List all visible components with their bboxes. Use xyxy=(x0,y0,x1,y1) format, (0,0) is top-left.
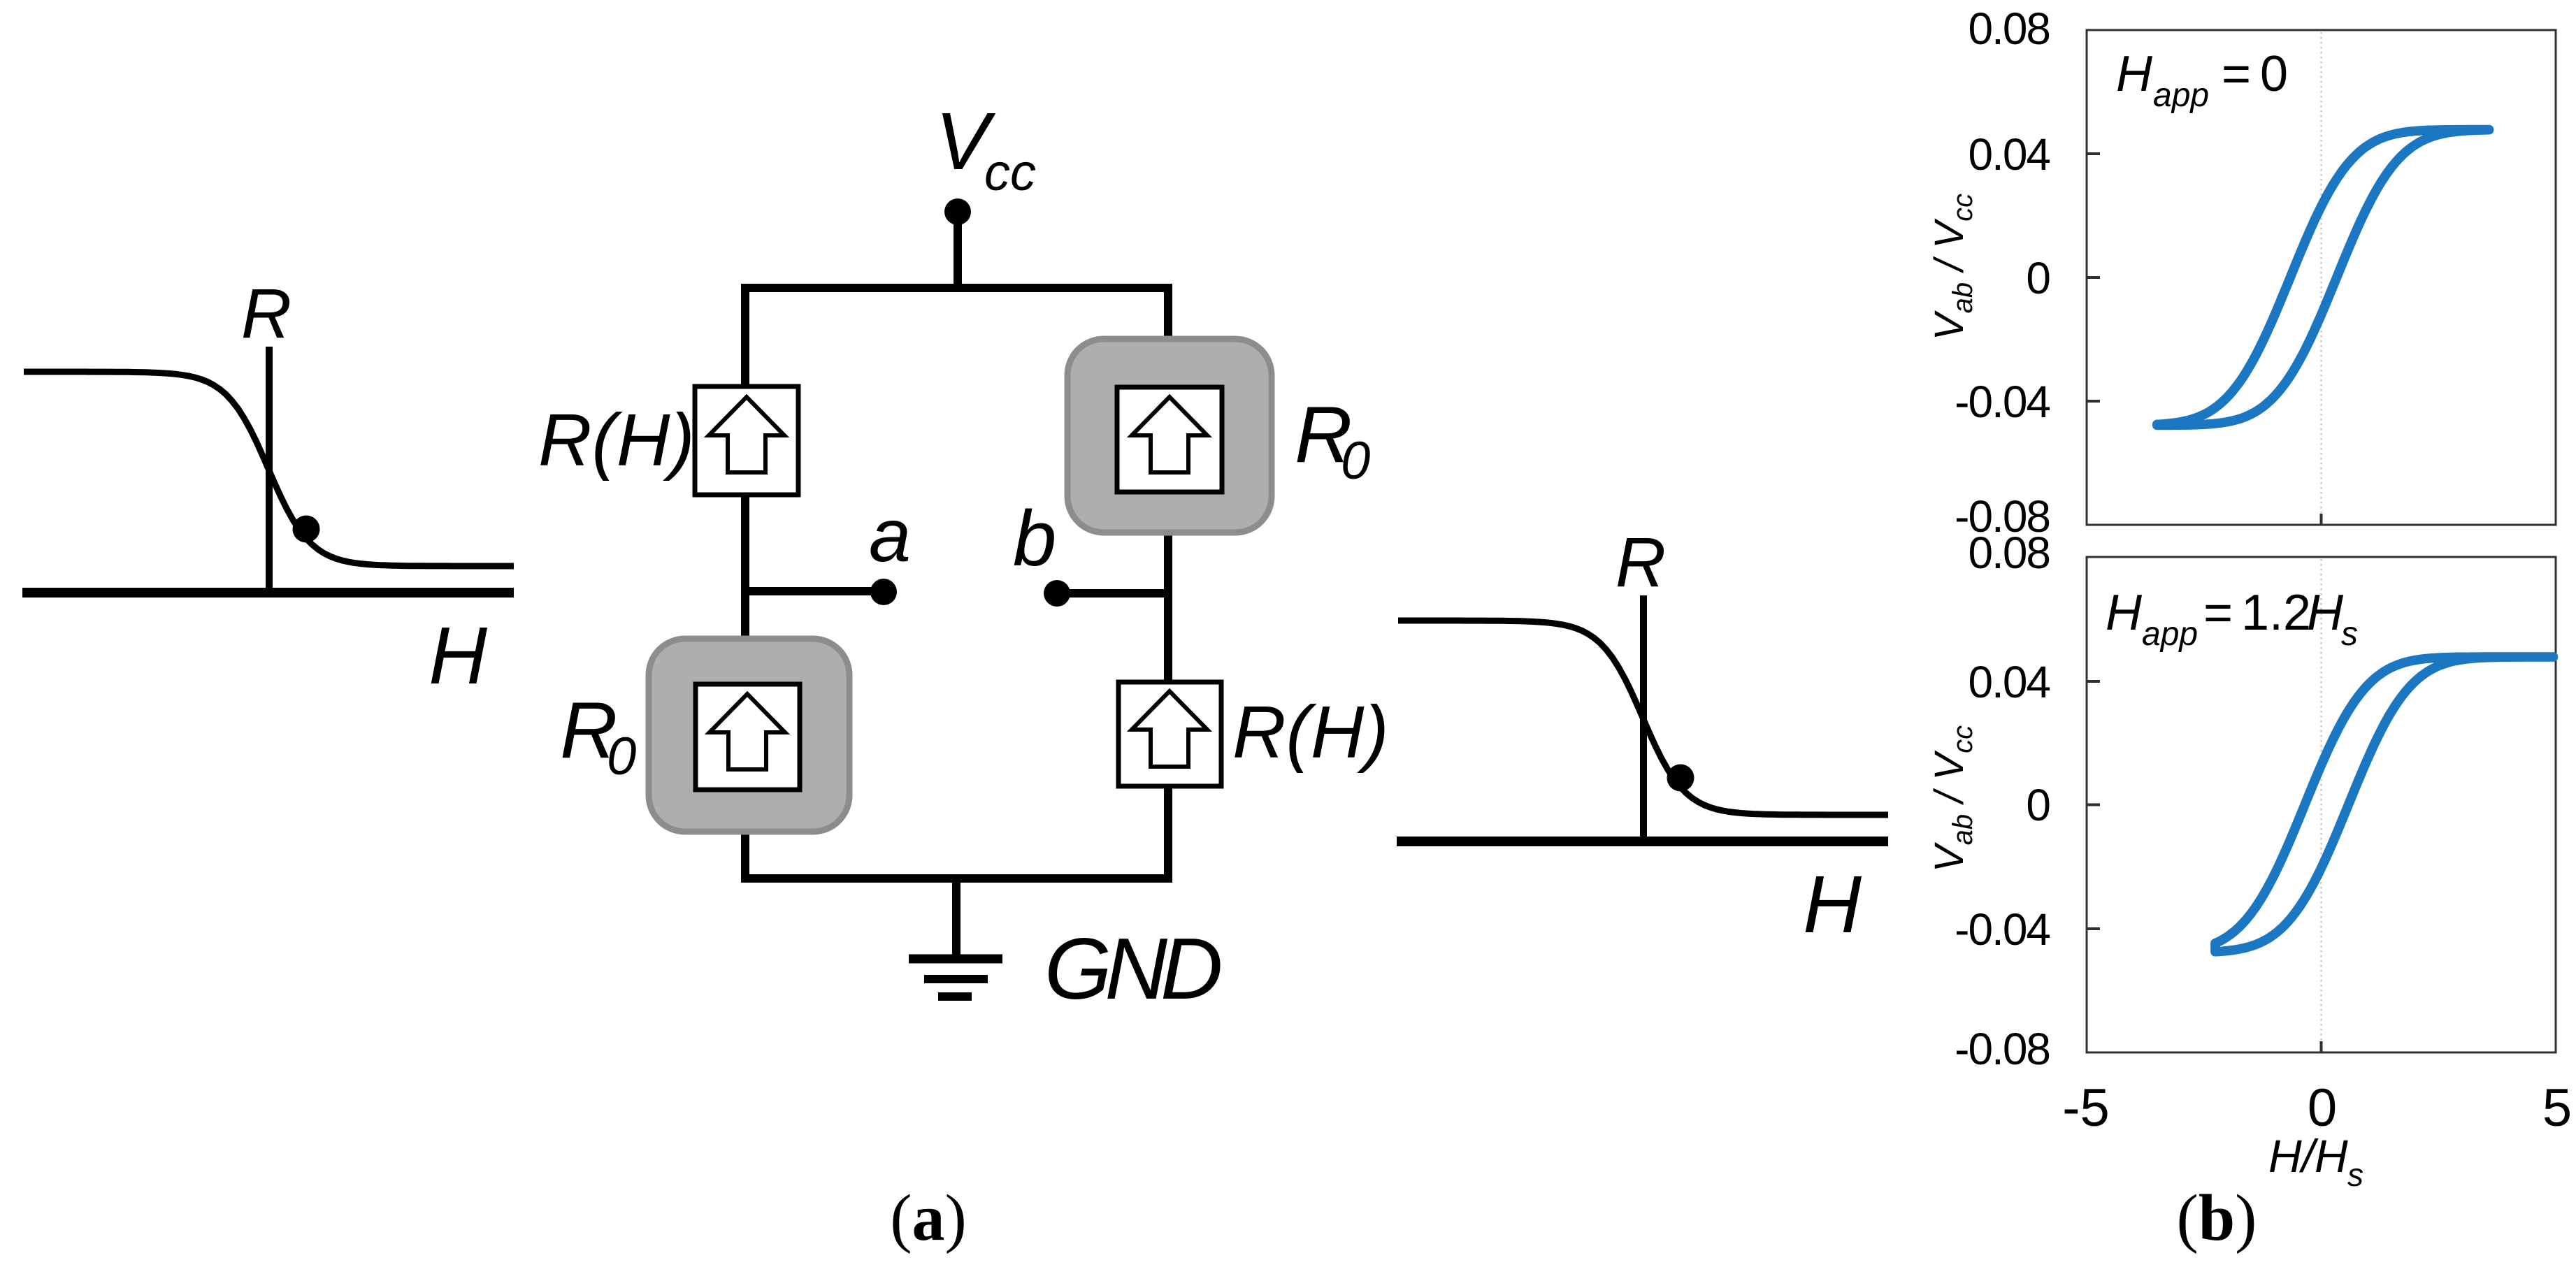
svg-text:0: 0 xyxy=(2308,1078,2337,1138)
svg-text:H/H: H/H xyxy=(2268,1130,2348,1182)
svg-text:=: = xyxy=(2222,46,2251,102)
svg-text:0: 0 xyxy=(1341,431,1370,491)
svg-text:H: H xyxy=(2116,46,2153,102)
svg-text:app: app xyxy=(2153,77,2209,114)
svg-text:(b): (b) xyxy=(2177,1182,2257,1254)
svg-text:b: b xyxy=(1013,495,1056,582)
svg-text:-0.04: -0.04 xyxy=(1955,377,2050,427)
svg-text:H: H xyxy=(2307,585,2344,641)
svg-text:s: s xyxy=(2341,616,2358,653)
svg-text:R: R xyxy=(241,275,292,353)
svg-text:=: = xyxy=(2203,585,2233,641)
svg-text:1.2: 1.2 xyxy=(2241,585,2311,641)
svg-text:0.08: 0.08 xyxy=(1968,3,2050,54)
svg-text:0: 0 xyxy=(2026,780,2050,830)
svg-text:R(H): R(H) xyxy=(538,399,695,482)
svg-text:-5: -5 xyxy=(2062,1078,2110,1138)
svg-text:R(H): R(H) xyxy=(1232,691,1389,774)
svg-text:GND: GND xyxy=(1044,921,1221,1018)
svg-text:s: s xyxy=(2347,1157,2363,1193)
svg-text:H: H xyxy=(429,610,487,701)
svg-text:0: 0 xyxy=(607,727,636,786)
svg-text:0: 0 xyxy=(2026,253,2050,303)
svg-text:-0.04: -0.04 xyxy=(1955,904,2050,955)
svg-text:a: a xyxy=(869,493,911,577)
svg-text:(a): (a) xyxy=(890,1182,967,1254)
svg-text:0.08: 0.08 xyxy=(1968,528,2050,578)
svg-text:app: app xyxy=(2142,616,2198,653)
svg-text:0.04: 0.04 xyxy=(1968,657,2050,707)
svg-text:0: 0 xyxy=(2260,46,2288,102)
svg-text:-0.08: -0.08 xyxy=(1955,1024,2050,1074)
svg-text:H: H xyxy=(2106,585,2143,641)
svg-text:5: 5 xyxy=(2542,1078,2572,1138)
svg-text:cc: cc xyxy=(984,143,1036,201)
svg-text:0.04: 0.04 xyxy=(1968,129,2050,180)
